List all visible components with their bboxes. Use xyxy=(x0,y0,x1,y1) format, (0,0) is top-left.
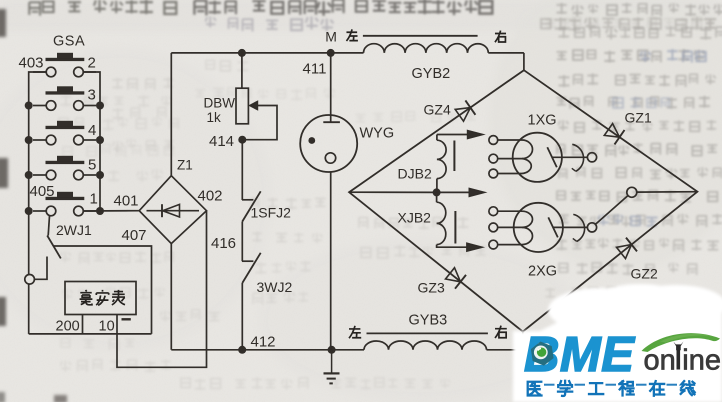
svg-text:GYB2: GYB2 xyxy=(412,66,451,82)
svg-text:402: 402 xyxy=(198,188,223,205)
svg-text:416: 416 xyxy=(211,235,236,252)
svg-text:2WJ1: 2WJ1 xyxy=(56,222,92,238)
svg-text:WYG: WYG xyxy=(360,126,395,142)
svg-text:Z1: Z1 xyxy=(177,158,193,173)
svg-text:5: 5 xyxy=(88,157,96,174)
svg-text:1: 1 xyxy=(90,191,98,208)
svg-text:3: 3 xyxy=(88,87,96,104)
svg-text:411: 411 xyxy=(303,61,327,78)
svg-text:GSA: GSA xyxy=(53,34,85,50)
svg-text:XJB2: XJB2 xyxy=(398,210,432,226)
svg-text:DJB2: DJB2 xyxy=(398,166,432,182)
svg-text:2XG: 2XG xyxy=(528,264,557,280)
svg-text:405: 405 xyxy=(30,183,55,200)
svg-text:10: 10 xyxy=(99,319,115,335)
svg-text:4: 4 xyxy=(88,122,96,139)
svg-text:GZ3: GZ3 xyxy=(418,280,445,296)
svg-text:2: 2 xyxy=(88,55,96,72)
svg-text:412: 412 xyxy=(251,334,276,351)
svg-text:401: 401 xyxy=(114,193,139,210)
svg-text:414: 414 xyxy=(209,133,234,150)
svg-text:200: 200 xyxy=(56,319,80,335)
svg-text:GZ4: GZ4 xyxy=(424,102,451,118)
svg-text:1SFJ2: 1SFJ2 xyxy=(251,205,292,221)
svg-text:M: M xyxy=(325,29,337,45)
svg-text:407: 407 xyxy=(122,227,147,244)
svg-text:GZ1: GZ1 xyxy=(625,110,652,126)
svg-text:DBW: DBW xyxy=(204,96,236,111)
svg-text:1XG: 1XG xyxy=(528,113,557,129)
svg-text:GYB3: GYB3 xyxy=(409,313,448,329)
svg-text:1k: 1k xyxy=(207,110,222,125)
svg-text:403: 403 xyxy=(19,55,44,72)
svg-text:ine: ine xyxy=(682,345,721,377)
svg-text:GZ2: GZ2 xyxy=(631,266,658,282)
svg-text:3WJ2: 3WJ2 xyxy=(257,279,293,295)
